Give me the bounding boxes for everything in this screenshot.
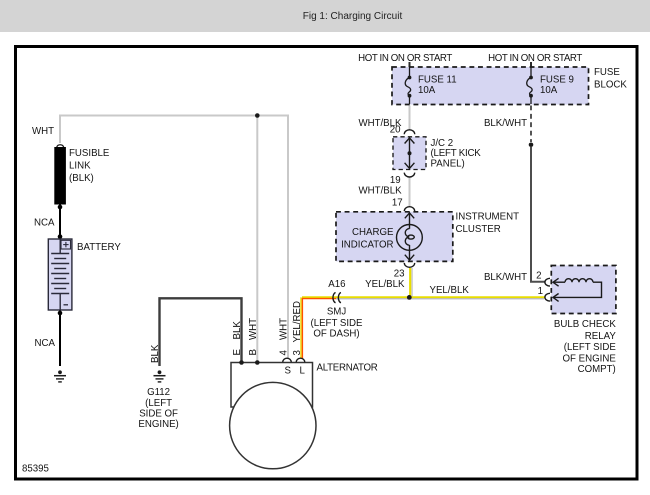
fuse F9 [527,67,532,104]
svg-text:10A: 10A [540,85,558,96]
wire B WHT branch [256,116,258,363]
svg-text:SIDE OF: SIDE OF [139,408,178,419]
wire stub hot feed fuse 11 [409,62,411,67]
svg-text:23: 23 [394,268,405,279]
svg-text:INDICATOR: INDICATOR [341,239,393,250]
battery - mark [64,304,69,306]
svg-text:BLK/WHT: BLK/WHT [484,272,527,283]
svg-text:PANEL): PANEL) [431,158,465,169]
connector arc above instrument cluster [404,207,414,211]
ground G112 [154,370,166,382]
svg-text:SMJ: SMJ [327,306,347,317]
svg-text:19: 19 [390,175,401,186]
svg-text:HOT IN ON OR START: HOT IN ON OR START [488,53,582,64]
svg-text:FUSE 9: FUSE 9 [540,74,574,85]
fuse F11 [405,67,410,104]
svg-text:CLUSTER: CLUSTER [456,224,501,235]
svg-text:OF DASH): OF DASH) [313,329,359,340]
svg-text:A16: A16 [328,279,345,290]
fusible link F1 [54,147,66,205]
svg-text:BLK/WHT: BLK/WHT [484,118,527,129]
battery BAT1 [48,239,72,310]
svg-text:(LEFT: (LEFT [145,398,172,409]
svg-text:ENGINE): ENGINE) [138,419,178,430]
svg-text:(BLK): (BLK) [69,173,94,184]
node splice on WHT [255,113,260,118]
connector SMJ double arcs [333,293,336,303]
J/C 2 internal arrows [405,138,415,169]
wire YEL/RED vertical to alternator L [300,297,302,358]
svg-text:10A: 10A [418,85,436,96]
svg-text:1: 1 [538,286,543,297]
svg-text:G112: G112 [147,387,170,398]
svg-text:YEL/BLK: YEL/BLK [430,285,470,296]
svg-text:NCA: NCA [35,338,56,349]
svg-text:FUSE 11: FUSE 11 [418,74,457,85]
alternator box [231,363,313,408]
svg-text:COMPT): COMPT) [578,364,616,375]
connector arc above fusible link [57,145,64,148]
bulb check relay box [551,266,616,314]
svg-text:(LEFT SIDE: (LEFT SIDE [564,342,617,353]
svg-text:RELAY: RELAY [585,331,617,342]
svg-text:OF ENGINE: OF ENGINE [563,353,617,364]
svg-text:FUSIBLE: FUSIBLE [69,148,110,159]
svg-text:3: 3 [292,350,303,355]
svg-text:ALTERNATOR: ALTERNATOR [317,363,378,374]
node junction YEL/BLK [407,295,412,300]
wire battery column bottom (battery to ground) [59,310,61,366]
node alternator B [255,360,260,365]
ground battery [54,370,66,382]
connector arc above J/C 2 [404,130,414,134]
svg-text:E: E [232,349,243,356]
connector arc alternator L [296,358,305,362]
wire YEL/BLK vertical from cluster pin 23 [409,268,411,297]
svg-text:85395: 85395 [22,463,49,474]
svg-text:YEL/BLK: YEL/BLK [365,279,405,290]
wire E BLK from alternator to G112 [160,298,242,366]
relay coil K1 [553,278,602,301]
svg-text:S: S [284,366,291,377]
svg-text:WHT: WHT [278,318,289,340]
title bar [0,0,650,32]
wire YEL/BLK horizontal to relay pin 1 [302,296,545,298]
svg-text:BLOCK: BLOCK [594,79,627,90]
svg-text:WHT: WHT [32,126,54,137]
svg-text:2: 2 [536,270,541,281]
svg-text:BLK: BLK [232,321,243,340]
alternator circle [230,382,316,468]
svg-text:FUSE: FUSE [594,67,620,78]
node below fusible link [58,205,63,210]
svg-text:NCA: NCA [34,218,55,229]
node above battery [58,234,63,239]
node below battery [58,311,63,316]
svg-text:CHARGE: CHARGE [352,227,394,238]
node splice on BLK/WHT [529,143,534,148]
wire stub hot feed fuse 9 [530,62,532,67]
relay pin 1 connector arc [545,293,550,301]
wire WHT/BLK from J/C 2 to instrument cluster [409,177,411,207]
svg-text:4: 4 [278,350,289,356]
svg-text:BATTERY: BATTERY [77,242,121,253]
svg-text:BULB CHECK: BULB CHECK [554,319,616,330]
battery + terminal box [61,240,71,249]
svg-text:17: 17 [392,198,403,209]
svg-text:YEL/RED: YEL/RED [292,301,303,342]
instrument cluster box [336,212,453,262]
relay pin 2 connector arc [545,278,550,286]
connector arc below J/C 2 [404,173,414,177]
svg-text:INSTRUMENT: INSTRUMENT [456,212,520,223]
wire YEL/RED horizontal red tracer [302,298,336,300]
svg-text:WHT: WHT [248,318,259,340]
connector arc alternator S [283,358,292,362]
svg-text:20: 20 [390,125,401,136]
svg-text:WHT/BLK: WHT/BLK [359,186,403,197]
svg-text:L: L [300,366,306,377]
wire WHT net (fusible link to alternator B and S) [60,116,288,359]
svg-text:HOT IN ON OR START: HOT IN ON OR START [358,53,452,64]
junction J/C 2 box [393,137,426,170]
svg-text:B: B [248,349,259,355]
wire WHT/BLK from fuse 11 to J/C 2 [409,106,411,131]
svg-text:(LEFT SIDE: (LEFT SIDE [310,318,363,329]
wire BLK/WHT solid to bulb check relay pin 2 [531,147,545,282]
svg-text:LINK: LINK [69,161,91,172]
node alternator E [239,360,244,365]
wire battery column top (link to battery) [59,205,61,240]
charge indicator lamp [397,213,423,260]
wire BLK/WHT dashed segment below fuse 9 [530,106,532,143]
fuse block box [392,67,589,105]
connector arc below instrument cluster [404,263,414,267]
svg-text:BLK: BLK [150,344,161,363]
